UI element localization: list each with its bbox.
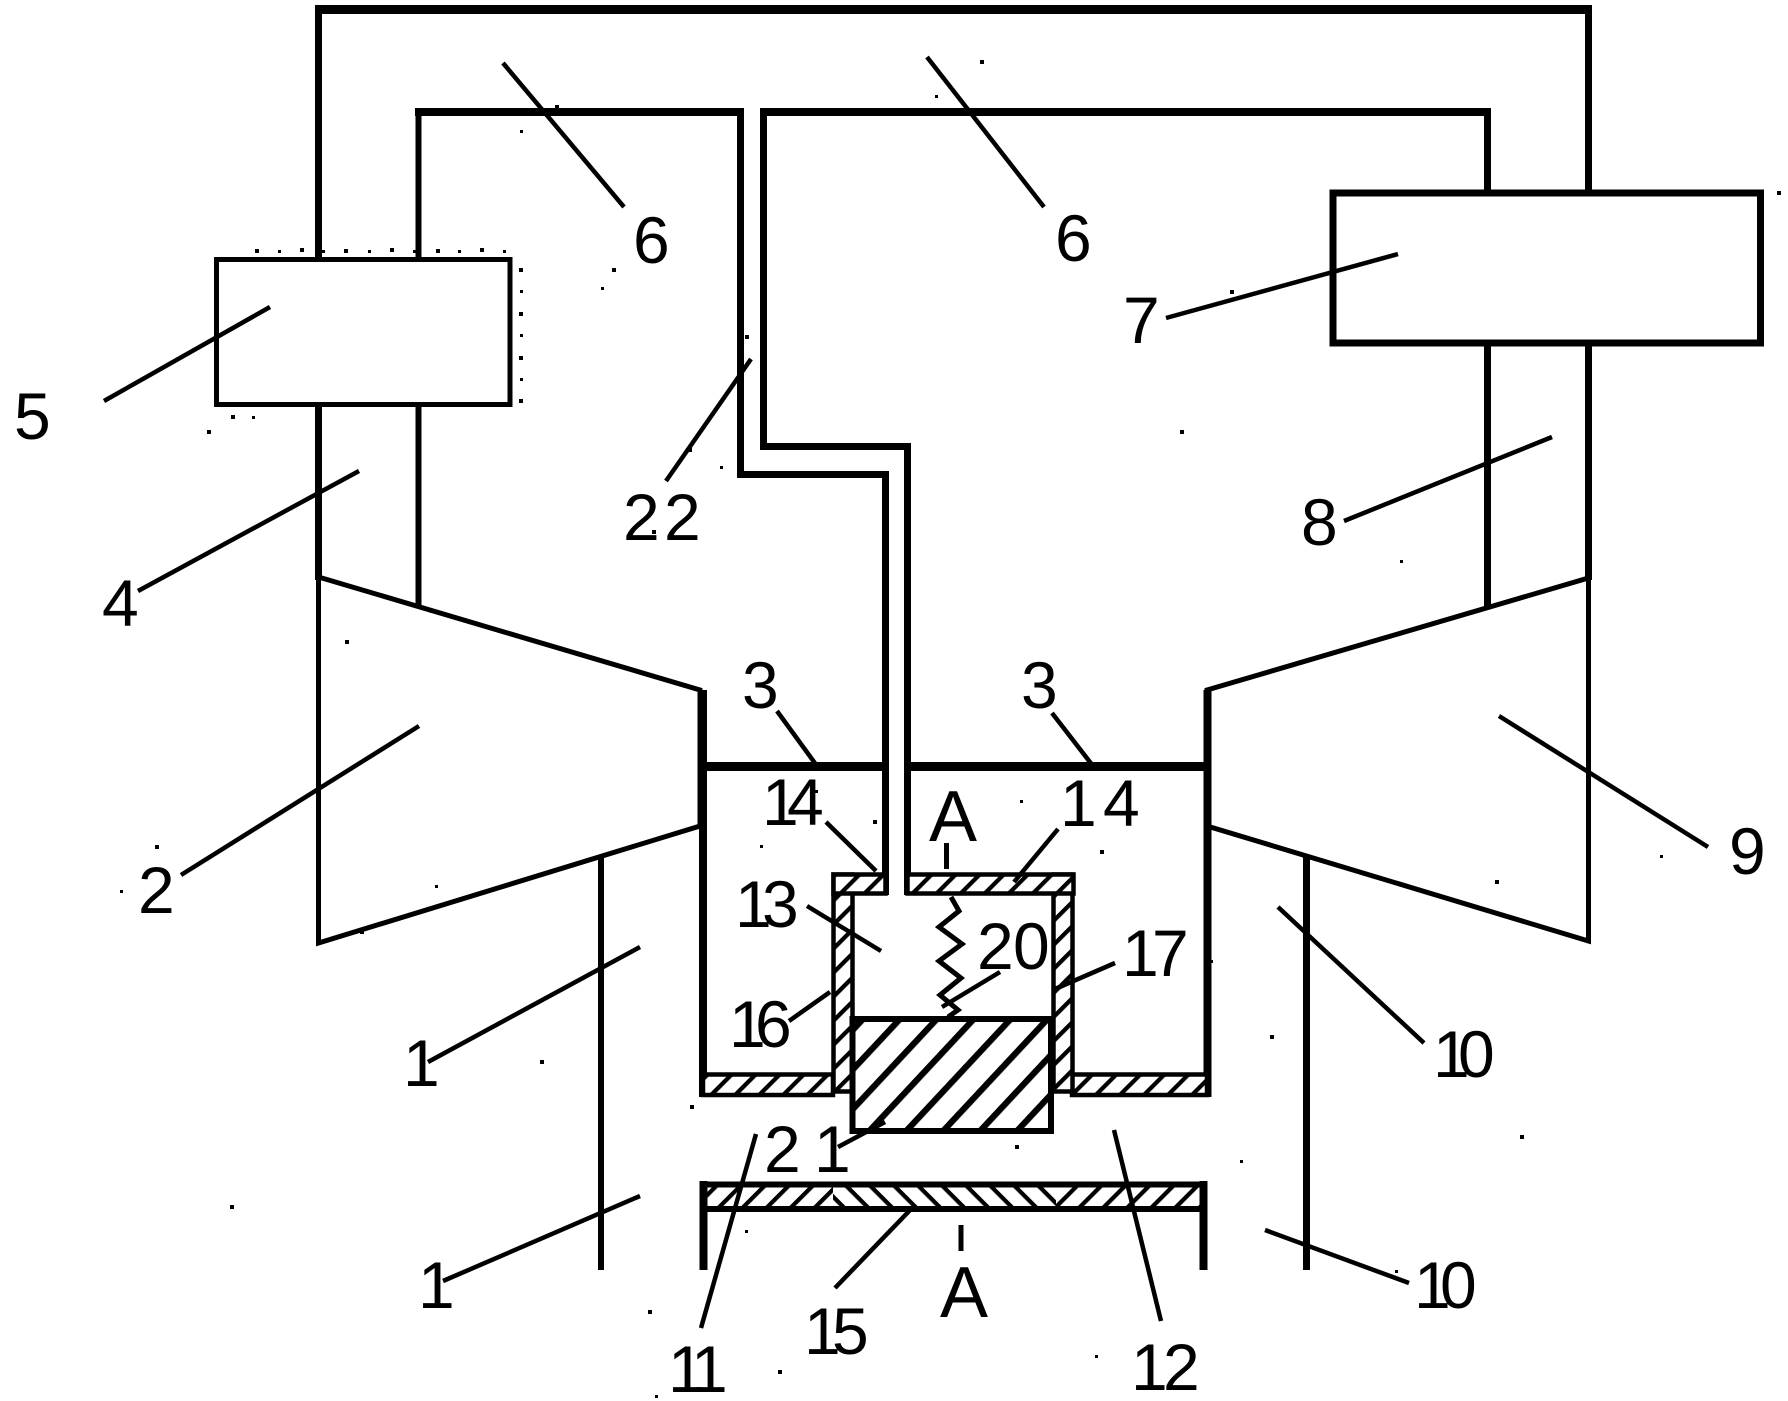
piston 21 xyxy=(853,1019,1052,1131)
node 3 partition line right segment xyxy=(908,762,1212,771)
leader 1 lower xyxy=(443,1196,640,1281)
wire: inner pipe right vertical upper xyxy=(1484,108,1491,192)
leader 1 upper xyxy=(428,947,640,1062)
node 3 partition line left segment xyxy=(699,762,886,771)
leader 7 xyxy=(1166,254,1398,318)
svg-text:5: 5 xyxy=(14,379,51,453)
wire: outer pipe right vertical lower xyxy=(1585,344,1592,580)
leader 4 xyxy=(138,471,359,591)
cap 14 right part xyxy=(908,875,1074,894)
cap 14 left part xyxy=(834,875,886,894)
seat strip right xyxy=(1072,1075,1207,1096)
svg-text:7: 7 xyxy=(1152,916,1189,990)
svg-text:4: 4 xyxy=(102,566,139,640)
svg-text:1: 1 xyxy=(418,1248,455,1322)
leader 14 left xyxy=(826,822,876,871)
section tick A top xyxy=(944,843,949,869)
leader 17 xyxy=(1055,963,1115,989)
svg-text:2: 2 xyxy=(764,1112,801,1186)
leader 2 xyxy=(181,726,419,875)
svg-text:2: 2 xyxy=(664,480,701,554)
wire: inner pipe 6 horizontal left segment xyxy=(415,108,741,116)
shaft 1 (left) xyxy=(598,855,604,1270)
box 5 xyxy=(217,260,511,405)
column 16 (left hatched wall) xyxy=(834,875,853,1092)
spring 20 xyxy=(939,897,962,1017)
svg-text:1: 1 xyxy=(814,1112,851,1186)
svg-text:0: 0 xyxy=(1440,1248,1477,1322)
leader 22 xyxy=(666,359,751,481)
leader 9 xyxy=(1499,716,1708,847)
section tick A bottom xyxy=(959,1225,964,1251)
leader 3 left xyxy=(777,711,817,766)
svg-text:6: 6 xyxy=(633,203,670,277)
svg-text:6: 6 xyxy=(1055,201,1092,275)
leader 16 xyxy=(789,992,830,1021)
turbine 2 (left trapezoid) xyxy=(319,577,701,943)
svg-text:7: 7 xyxy=(1123,283,1160,357)
housing left wall xyxy=(699,690,707,1097)
svg-text:3: 3 xyxy=(742,648,779,722)
plate 15 left wall xyxy=(700,1181,708,1270)
wire: inner pipe left vertical lower xyxy=(416,403,422,611)
svg-text:1: 1 xyxy=(403,1026,440,1100)
leader 14 right xyxy=(1014,829,1058,882)
leader 10 upper xyxy=(1278,907,1424,1043)
leader 12 xyxy=(1114,1130,1161,1321)
wire: outer pipe right vertical upper xyxy=(1585,5,1592,192)
turbine 9 (right trapezoid) xyxy=(1207,578,1589,941)
leader 6 left xyxy=(503,63,624,207)
leader 20 xyxy=(942,972,1000,1007)
plate 15 hatch middle xyxy=(833,1187,1056,1206)
svg-text:A: A xyxy=(940,1253,988,1333)
wire: inner pipe 6 horizontal right segment xyxy=(763,108,1491,116)
box 7 xyxy=(1333,193,1761,343)
leader 11 xyxy=(701,1134,756,1328)
svg-text:1: 1 xyxy=(691,1332,728,1401)
svg-text:8: 8 xyxy=(1301,485,1338,559)
leader 13 xyxy=(807,906,881,951)
svg-text:9: 9 xyxy=(1729,814,1766,888)
svg-text:4: 4 xyxy=(1103,766,1140,840)
shaft 10 (right) xyxy=(1303,855,1310,1270)
svg-text:A: A xyxy=(929,777,977,857)
plate 15 border xyxy=(704,1185,1204,1210)
svg-text:2: 2 xyxy=(138,853,175,927)
svg-text:0: 0 xyxy=(1458,1017,1495,1091)
column 17 (right hatched wall) xyxy=(1054,875,1073,1092)
wire: outer pipe top horizontal xyxy=(315,5,1592,14)
leader 3 right xyxy=(1052,713,1093,766)
wire: inner pipe right vertical lower xyxy=(1484,344,1491,610)
leader 8 xyxy=(1344,437,1552,521)
pipe 22 inner wall xyxy=(764,108,908,895)
wire: inner pipe left vertical upper xyxy=(416,108,422,261)
housing right wall xyxy=(1204,690,1212,1097)
svg-text:6: 6 xyxy=(755,987,792,1061)
svg-text:2: 2 xyxy=(623,480,660,554)
svg-text:1: 1 xyxy=(1060,766,1097,840)
leader 5 xyxy=(104,307,270,401)
svg-text:2: 2 xyxy=(1163,1330,1200,1401)
plate 15 right wall xyxy=(1200,1181,1208,1270)
svg-text:3: 3 xyxy=(1021,648,1058,722)
plate 15 hatch right xyxy=(1056,1187,1201,1206)
scan noise dots around box 5 xyxy=(207,248,523,434)
plate 15 hatch left xyxy=(706,1187,833,1206)
wire: outer pipe left vertical lower xyxy=(315,403,322,580)
svg-text:0: 0 xyxy=(1013,909,1050,983)
svg-text:3: 3 xyxy=(762,867,799,941)
pipe 22 outer wall xyxy=(741,108,886,895)
seat strip left xyxy=(703,1075,833,1096)
leader 10 lower xyxy=(1265,1230,1409,1283)
svg-text:2: 2 xyxy=(977,909,1014,983)
leader 15 xyxy=(835,1206,914,1288)
leader 21 xyxy=(838,1122,885,1147)
svg-text:4: 4 xyxy=(787,765,824,839)
svg-text:5: 5 xyxy=(832,1294,869,1368)
wire: outer pipe left vertical upper xyxy=(315,5,322,261)
leader 6 right xyxy=(927,57,1044,207)
